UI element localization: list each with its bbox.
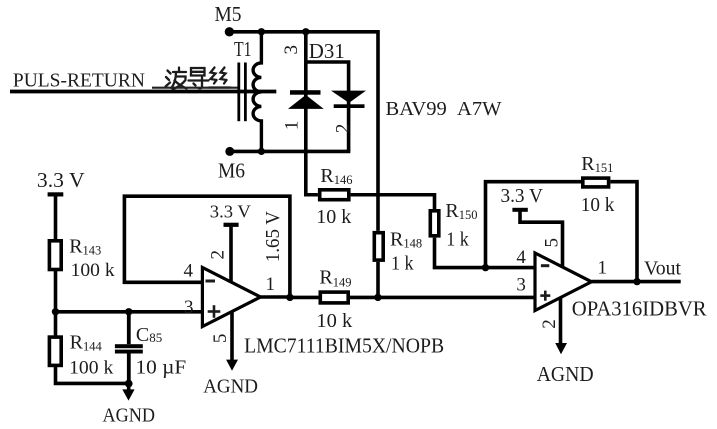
junction Vout node bbox=[633, 278, 640, 285]
op-amp U1 plus sign bbox=[208, 305, 221, 318]
wire right diode branch top and down to bottom rail bbox=[306, 62, 349, 151]
label 波导丝 (hand-drawn strokes) bbox=[166, 68, 231, 90]
net label underline (波导丝) bbox=[152, 87, 238, 89]
svg-text:3.3 V: 3.3 V bbox=[501, 186, 543, 207]
svg-text:2: 2 bbox=[207, 250, 228, 259]
junction divider node bbox=[52, 308, 59, 315]
svg-text:LMC7111BIM5X/NOPB: LMC7111BIM5X/NOPB bbox=[244, 334, 444, 358]
op-amp U2 triangle bbox=[535, 253, 592, 311]
wire R150 bottom to op-amp U2 pin 4 bbox=[435, 238, 536, 268]
wire U2 output Vout bbox=[592, 280, 681, 284]
junction coil top bbox=[258, 28, 265, 35]
svg-text:Vout: Vout bbox=[644, 258, 681, 280]
op-amp U1 minus sign bbox=[206, 280, 216, 283]
junction U1 output node bbox=[286, 294, 293, 301]
transformer T1 core bars bbox=[239, 63, 246, 122]
svg-text:1.65 V: 1.65 V bbox=[262, 211, 284, 263]
ground AGND (middle) arrow bbox=[226, 360, 238, 371]
svg-text:AGND: AGND bbox=[537, 362, 594, 386]
svg-text:D31: D31 bbox=[309, 39, 345, 63]
svg-text:1 k: 1 k bbox=[446, 229, 469, 251]
terminal M5 bbox=[225, 27, 234, 36]
波 right part 皮 bbox=[173, 71, 186, 73]
junction coil bottom bbox=[258, 148, 265, 155]
wire top rail M5 to right vertical down to R148 bbox=[229, 32, 378, 231]
导 top 巳 bbox=[191, 68, 205, 76]
wire R148 bottom to mid node bbox=[376, 262, 380, 298]
svg-text:1: 1 bbox=[266, 274, 276, 295]
丝 bottom horizontal bbox=[209, 86, 231, 88]
resistor R144 body bbox=[49, 337, 61, 365]
svg-text:4: 4 bbox=[184, 261, 194, 282]
wire left diode branch down to R146 bbox=[306, 32, 318, 195]
resistor R146 body bbox=[320, 190, 349, 200]
svg-text:2: 2 bbox=[539, 319, 560, 329]
svg-text:10 k: 10 k bbox=[316, 310, 352, 332]
svg-text:10 µF: 10 µF bbox=[136, 357, 187, 379]
transformer T1 secondary coil bbox=[253, 32, 261, 152]
导 bottom 寸 bbox=[189, 79, 209, 81]
wire U2 feedback up to R151 bbox=[486, 182, 582, 268]
svg-text:M5: M5 bbox=[215, 2, 242, 26]
svg-text:4: 4 bbox=[516, 247, 526, 268]
svg-text:PULS-RETURN: PULS-RETURN bbox=[13, 70, 145, 92]
resistor R150 body bbox=[430, 211, 439, 236]
丝 loops bbox=[211, 68, 217, 81]
波 water radical bbox=[168, 71, 171, 74]
svg-text:1: 1 bbox=[282, 121, 303, 130]
resistor R149 body with stub wires bbox=[290, 296, 319, 300]
wire R149 to U2 pin 3 bbox=[350, 296, 535, 300]
wire divider node to U1 pin 3 bbox=[56, 310, 203, 314]
wire divider node down to R144 bbox=[54, 312, 58, 337]
svg-text:10 k: 10 k bbox=[316, 206, 351, 228]
wire bottom rail M6 bbox=[230, 150, 350, 154]
svg-text:M6: M6 bbox=[218, 159, 245, 183]
junction AGND rail bbox=[125, 380, 133, 388]
svg-text:T1: T1 bbox=[234, 37, 252, 61]
junction C85 top bbox=[125, 308, 132, 315]
svg-text:3: 3 bbox=[516, 274, 526, 295]
svg-text:BAV99 A7W: BAV99 A7W bbox=[386, 98, 503, 120]
svg-text:3: 3 bbox=[184, 297, 194, 318]
wire R144 bottom to AGND rail bbox=[56, 365, 129, 383]
wire U1 pin 5 to ground bbox=[230, 312, 234, 361]
diode D31 right half (cathode bar bottom) bbox=[331, 91, 366, 108]
capacitor C85 bbox=[115, 312, 143, 384]
wire R151 right down to Vout node bbox=[610, 182, 637, 282]
svg-text:10 k: 10 k bbox=[581, 194, 615, 216]
junction diode D31 pin3 top bbox=[302, 28, 309, 35]
diode D31 left half (cathode bar top) bbox=[288, 90, 324, 109]
resistor R148 body bbox=[374, 233, 383, 260]
svg-text:3.3 V: 3.3 V bbox=[37, 168, 85, 192]
op-amp U1 triangle bbox=[202, 268, 260, 327]
power symbol 3.3 V (right, U2) bbox=[501, 186, 563, 267]
svg-text:100 k: 100 k bbox=[71, 260, 116, 281]
svg-text:100 k: 100 k bbox=[69, 358, 114, 379]
junction R148 bottom node bbox=[374, 294, 381, 301]
wire PULS-RETURN waveguide line bbox=[10, 90, 276, 94]
svg-text:OPA316IDBVR: OPA316IDBVR bbox=[572, 297, 707, 321]
junction U2 feedback node bbox=[482, 264, 489, 271]
power symbol 3.3 V (left) bbox=[37, 168, 85, 241]
resistor R143 body bbox=[49, 241, 61, 270]
ground AGND (left) arrow bbox=[122, 384, 134, 401]
svg-text:3: 3 bbox=[281, 45, 302, 55]
wire R143 bottom to divider node bbox=[54, 270, 58, 312]
ground AGND (right) arrow bbox=[555, 343, 567, 354]
svg-text:5: 5 bbox=[542, 238, 563, 248]
power symbol 3.3 V (middle, U1) bbox=[210, 202, 251, 283]
terminal M6 bbox=[225, 147, 234, 156]
op-amp U2 minus sign bbox=[541, 264, 549, 267]
wire U2 pin 2 to ground bbox=[559, 298, 563, 344]
op-amp U1 feedback loop wire bbox=[124, 196, 290, 297]
svg-text:1: 1 bbox=[598, 258, 608, 279]
wire R146 right to R150 top bbox=[351, 195, 435, 209]
svg-text:AGND: AGND bbox=[203, 376, 258, 398]
op-amp U2 plus sign bbox=[540, 291, 550, 301]
svg-text:AGND: AGND bbox=[103, 405, 156, 427]
svg-text:5: 5 bbox=[210, 334, 231, 344]
svg-text:1 k: 1 k bbox=[391, 253, 414, 275]
svg-text:2: 2 bbox=[332, 124, 353, 134]
svg-text:3.3 V: 3.3 V bbox=[210, 202, 251, 222]
resistor R151 body bbox=[583, 178, 609, 187]
